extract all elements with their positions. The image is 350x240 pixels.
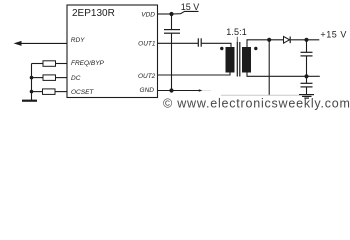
node caps midpoint junction dot	[304, 74, 308, 78]
node OCSET rail junction dot	[30, 90, 34, 94]
capacitor C1 decoupling plates	[164, 30, 180, 34]
ground right	[299, 95, 314, 99]
wire diode cathode to +15V output	[291, 39, 320, 41]
transformer T1 secondary winding	[242, 47, 251, 73]
svg-text:2EP130R: 2EP130R	[72, 8, 115, 19]
wire C1 vertical from VDD node	[171, 14, 173, 30]
node DC rail junction dot	[30, 76, 34, 80]
resistor R2 DC	[43, 75, 56, 81]
wire left resistor rail	[31, 64, 33, 101]
wire coupling cap to transformer primary top	[202, 43, 232, 47]
ground left	[22, 100, 37, 102]
wire caps midpoint right stub	[307, 75, 320, 77]
capacitor C3 output upper plates	[301, 52, 313, 56]
svg-text:15 V: 15 V	[181, 2, 200, 12]
arrowhead on RDY wire	[14, 41, 22, 46]
capacitor C4 output lower plates	[301, 83, 313, 87]
wire transformer secondary bottom to caps midpoint	[247, 72, 307, 76]
diode D1	[284, 37, 290, 44]
wire DC resistor row	[32, 77, 44, 79]
wire OUT2 to transformer primary bottom	[158, 72, 231, 75]
resistor R3 OCSET	[43, 89, 56, 95]
transformer phase dot secondary	[254, 47, 257, 50]
svg-text:VDD: VDD	[141, 11, 155, 18]
svg-text:OCSET: OCSET	[71, 89, 94, 96]
svg-text:+15 V: +15 V	[320, 30, 347, 40]
wire vertical from anode node down to ground rail	[268, 40, 270, 96]
transformer phase dot primary	[220, 47, 223, 50]
node anode junction dot	[267, 38, 271, 42]
wire 15V label underline	[172, 11, 199, 14]
faint washed ground rail under watermark	[221, 94, 299, 96]
transformer label leader tick	[236, 37, 238, 42]
node VDD junction dot	[169, 12, 173, 16]
transformer T1 core lines	[237, 42, 240, 77]
svg-text:© www.electronicsweekly.com: © www.electronicsweekly.com	[163, 97, 350, 111]
transformer T1 primary winding	[226, 47, 235, 73]
resistor R1 FREQ/BYP	[43, 61, 56, 67]
svg-text:1.5:1: 1.5:1	[226, 27, 247, 37]
wire RDY pin to arrow	[21, 42, 67, 44]
faint washed GND wire continuation	[201, 90, 211, 92]
svg-text:FREQ/BYP: FREQ/BYP	[71, 60, 105, 67]
capacitor C2 coupling plates	[198, 38, 201, 46]
svg-text:RDY: RDY	[71, 37, 85, 44]
wire GND pin	[158, 90, 200, 92]
wire transformer secondary top to diode	[247, 40, 284, 48]
node output junction dot	[304, 38, 308, 42]
op-amp U1 2EP130R controller IC body	[67, 5, 158, 98]
svg-text:OUT2: OUT2	[138, 73, 156, 80]
wire OCSET resistor row	[32, 91, 43, 93]
svg-text:DC: DC	[71, 75, 81, 82]
svg-text:OUT1: OUT1	[138, 41, 156, 48]
wire C4 to ground symbol	[306, 87, 308, 95]
wire C1 lower vertical to GND wire	[171, 33, 173, 90]
wire FREQ/BYP resistor row	[32, 63, 44, 65]
arrowhead on GND wire end	[199, 89, 203, 92]
svg-text:GND: GND	[140, 87, 155, 94]
wire VDD pin to 15V node	[158, 13, 173, 15]
wire OUT1 to coupling cap	[158, 42, 199, 44]
wire output node down to C3	[306, 40, 308, 53]
wire C3 to midpoint	[306, 56, 308, 83]
node GND junction dot	[169, 88, 173, 92]
